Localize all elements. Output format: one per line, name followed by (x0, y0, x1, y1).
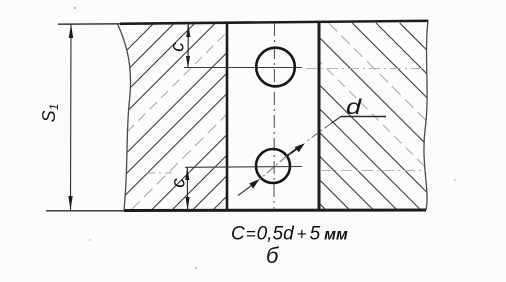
upper hole circle (256, 48, 295, 87)
dimension S1 line (70, 24, 73, 210)
diameter arrow lower-left (249, 179, 259, 188)
left wavy break edge (117, 23, 131, 210)
dimension S1 arrow bottom (68, 196, 72, 210)
dimension c upper arrow top (186, 24, 190, 37)
diameter line through lower hole (254, 152, 292, 185)
lower hole circle (256, 149, 290, 183)
right wavy break edge (424, 20, 428, 210)
dimension c upper line (187, 24, 189, 68)
leader d diagonal (331, 117, 341, 124)
dimension c upper arrow bottom (186, 56, 190, 68)
leader d stub to circle (288, 149, 297, 156)
svg-text:c: c (169, 178, 190, 188)
hatching left part (0, 23, 400, 210)
svg-text:d: d (346, 96, 363, 119)
diameter arrow tail (238, 186, 252, 196)
strip right edge line (318, 23, 321, 210)
horizontal centerline lower hole (185, 166, 302, 169)
dimension c lower arrow bottom (186, 197, 190, 210)
paper specks (74, 7, 76, 9)
leader d underline (341, 116, 386, 118)
dimension c lower arrow top (185, 168, 189, 181)
dimension S1 arrow top (69, 24, 73, 38)
svg-text:б: б (266, 243, 280, 268)
svg-text:c: c (168, 42, 189, 52)
dimension c lower line (186, 168, 188, 211)
bottom plate edge line (46, 210, 126, 212)
svg-text:C=0,5d+5мм: C=0,5d+5мм (231, 224, 348, 245)
horizontal centerline upper hole (184, 67, 302, 69)
hatching right part (139, 23, 506, 210)
top plate edge line (58, 23, 122, 25)
strip left edge line (226, 23, 229, 210)
leader d arrow upper (295, 143, 305, 152)
vertical centerline through holes (273, 23, 276, 210)
